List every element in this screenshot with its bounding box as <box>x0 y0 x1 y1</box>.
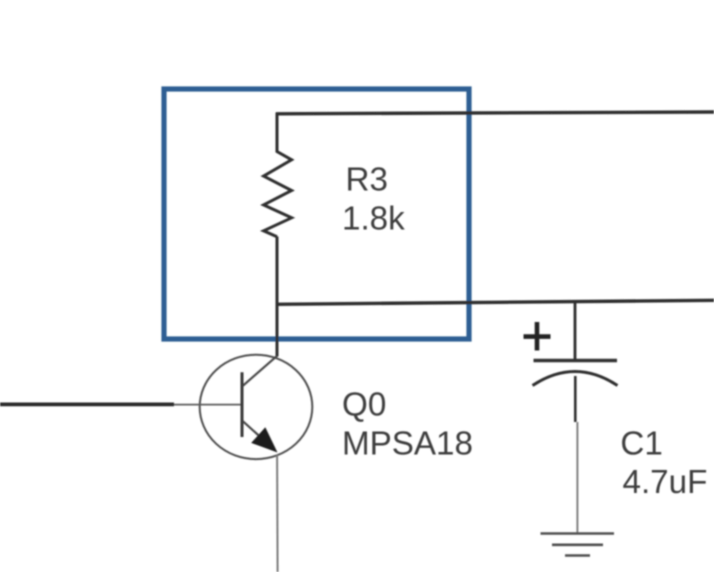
wire: R3 bottom to Q0 collector (vertical) <box>276 237 279 357</box>
highlight box (blue selection rectangle) <box>164 89 469 339</box>
transistor Q0 <box>200 355 313 459</box>
svg-text:C1: C1 <box>620 426 662 463</box>
svg-text:MPSA18: MPSA18 <box>342 426 473 463</box>
capacitor C1 (polarized) <box>533 303 618 423</box>
wire: lower net from collector node to right edge <box>276 300 714 304</box>
svg-text:R3: R3 <box>346 162 388 199</box>
polarity plus sign for C1 <box>524 322 551 351</box>
svg-text:1.8k: 1.8k <box>342 201 405 238</box>
wire: emitter lead down to bottom edge <box>276 455 279 572</box>
svg-text:Q0: Q0 <box>342 387 386 424</box>
wire: C1 negative lead to ground <box>576 422 578 534</box>
wire: base wire from left edge (thick segment) <box>0 403 174 407</box>
wire: top net from R3 top to right edge <box>276 112 714 114</box>
wire: base wire thin segment to base bar <box>174 404 241 406</box>
resistor R3 <box>264 113 292 237</box>
svg-text:4.7uF: 4.7uF <box>623 464 708 501</box>
ground <box>541 534 615 556</box>
